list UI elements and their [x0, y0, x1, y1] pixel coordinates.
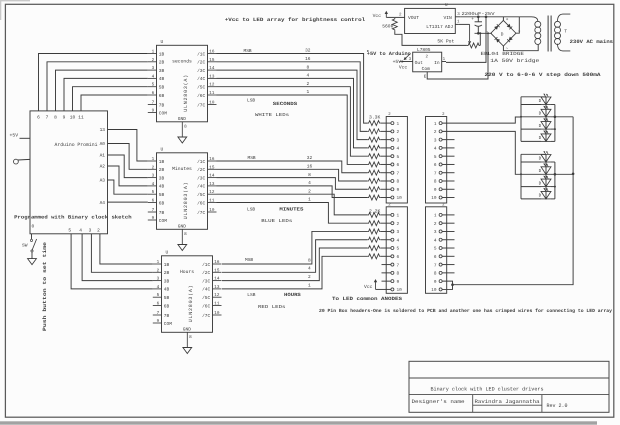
svg-text:ULN2803(A): ULN2803(A): [188, 285, 194, 322]
svg-text:4: 4: [79, 229, 82, 234]
left tap cluster 2: [521, 161, 541, 163]
svg-text:10: 10: [397, 288, 403, 293]
wire minutes bit 2: [217, 194, 368, 215]
svg-text:L7805: L7805: [417, 47, 431, 53]
svg-text:U: U: [445, 3, 448, 8]
wire R1 to header: [381, 122, 391, 124]
cap bottom lead: [477, 27, 479, 34]
svg-text:+: +: [506, 18, 509, 23]
pin 6 6B (seconds): [148, 94, 157, 96]
svg-text:BLUE LEDs: BLUE LEDs: [261, 219, 292, 224]
svg-text:Hours: Hours: [180, 269, 194, 275]
svg-text:5: 5: [434, 247, 437, 252]
junction: [477, 15, 480, 18]
pin 2 (J4): [439, 222, 442, 225]
pin 2 (J2): [391, 222, 394, 225]
svg-text:U: U: [161, 147, 164, 153]
svg-text:5B: 5B: [159, 193, 165, 198]
svg-text:4: 4: [157, 285, 160, 290]
pin 7 (J4): [439, 263, 442, 266]
cap top plate: [475, 21, 482, 23]
pin 3 VIN stub: [455, 16, 460, 18]
wire J3 pin2 to LED cluster 2: [442, 131, 521, 174]
junction: [479, 32, 481, 34]
pin 2 (J3): [439, 130, 442, 133]
svg-text:15: 15: [214, 268, 220, 273]
svg-text:5: 5: [68, 229, 71, 234]
pin 6 (J3): [439, 163, 442, 166]
wire R12 to header: [381, 222, 391, 224]
pin 13 /4C (seconds): [208, 77, 217, 79]
svg-text:-: -: [486, 30, 489, 35]
svg-text:/1C: /1C: [197, 159, 205, 165]
cap curved plate: [475, 25, 482, 26]
svg-text:2: 2: [97, 228, 100, 234]
svg-text:2: 2: [306, 81, 309, 87]
svg-text:1: 1: [434, 122, 437, 127]
svg-text:/3C: /3C: [197, 175, 205, 181]
svg-text:5: 5: [152, 190, 155, 195]
svg-text:14: 14: [214, 277, 220, 282]
pin 2 2B (Hours): [153, 271, 162, 273]
svg-text:2: 2: [434, 130, 437, 135]
svg-text:14: 14: [209, 66, 215, 71]
svg-text:/5C: /5C: [197, 85, 205, 91]
wire to hours input: [91, 234, 152, 272]
ground (Minutes): [178, 245, 187, 251]
svg-text:8: 8: [184, 124, 187, 129]
pin 9 (J3): [439, 188, 442, 191]
svg-text:5B: 5B: [159, 86, 165, 91]
pin 1 ADJ stub: [455, 23, 459, 25]
wire to minutes input: [108, 180, 148, 194]
svg-text:Rev 2.0: Rev 2.0: [547, 403, 568, 409]
left rail cluster 2: [520, 154, 522, 199]
wire D7 to seconds: [47, 62, 148, 111]
pin 7 7B (seconds): [148, 104, 157, 106]
wire ADJ to wiper: [459, 23, 470, 25]
wire R9 to header: [381, 188, 391, 190]
svg-text:16: 16: [214, 260, 220, 265]
svg-text:/2C: /2C: [197, 167, 205, 173]
svg-text:6: 6: [434, 163, 437, 168]
pin 13 /4C (Hours): [213, 288, 222, 290]
svg-text:MSB: MSB: [248, 155, 256, 161]
Vcc symbol (brightness): [385, 13, 387, 17]
svg-text:10: 10: [397, 196, 403, 201]
wire to minutes input: [108, 144, 148, 170]
svg-text:2: 2: [397, 222, 400, 227]
svg-text:10: 10: [431, 288, 437, 293]
pin 10 (J2): [391, 288, 394, 291]
LED D1 cluster 1: [541, 97, 551, 105]
wire seconds bit 16: [217, 62, 368, 132]
svg-text:D: D: [539, 157, 542, 162]
svg-text:U: U: [161, 39, 164, 45]
svg-text:11: 11: [209, 91, 215, 96]
svg-text:LSB: LSB: [247, 292, 255, 298]
stub J3 pin 5: [442, 155, 454, 157]
svg-text:3B: 3B: [159, 175, 165, 181]
stub J4 pin 5: [442, 247, 454, 249]
svg-text:2: 2: [152, 58, 155, 63]
pot wiper: [469, 24, 471, 41]
pin 14 /3C (seconds): [208, 69, 217, 71]
svg-text:7: 7: [434, 171, 437, 176]
svg-text:15: 15: [209, 58, 215, 63]
pin 9 COM (Minutes): [148, 219, 157, 221]
svg-text:8: 8: [434, 180, 437, 185]
svg-text:10: 10: [209, 101, 215, 106]
pin 5 5B (Minutes): [148, 193, 157, 195]
svg-text:Designer's name: Designer's name: [412, 399, 465, 405]
svg-text:T: T: [564, 28, 567, 34]
svg-text:GND: GND: [183, 327, 191, 333]
right tap cluster 1: [551, 128, 555, 130]
resistor R7 3.3K: [367, 170, 380, 175]
resistor R14 2.2K: [367, 237, 380, 242]
svg-text:7: 7: [152, 208, 155, 213]
svg-text:3: 3: [434, 138, 437, 143]
svg-text:Push button to set time: Push button to set time: [42, 242, 48, 331]
pin 14 /3C (Minutes): [208, 177, 217, 179]
pin 3 Out stub: [402, 61, 413, 63]
right rail cluster 1: [554, 105, 556, 142]
svg-text:/7C: /7C: [197, 210, 205, 216]
pin 6 6B (Hours): [153, 305, 162, 307]
svg-text:2200uF-25V: 2200uF-25V: [462, 11, 495, 17]
svg-text:D: D: [539, 124, 542, 129]
svg-text:8: 8: [184, 232, 187, 237]
wire R14 to header: [381, 239, 391, 241]
regulator U4 LT1317: [405, 8, 456, 33]
stub J3 pin 4: [442, 147, 454, 149]
resistor 560R: [392, 18, 397, 31]
op-amp U Minutes driver ULN2803A: [157, 153, 208, 230]
pin 16 /1C (Hours): [213, 263, 222, 265]
svg-text:A4: A4: [100, 201, 106, 206]
svg-text:7B: 7B: [159, 211, 165, 216]
pin 5 (J4): [439, 247, 442, 250]
stub J3 pin 3: [442, 139, 454, 141]
connector J1 10-pin box header: [386, 117, 407, 204]
svg-text:+5V to Arduino: +5V to Arduino: [367, 51, 411, 57]
svg-text:To LED common ANODES: To LED common ANODES: [332, 296, 402, 302]
pin 11 /6C (Hours): [213, 305, 222, 307]
svg-text:2B: 2B: [164, 270, 170, 276]
wire R7 to header: [381, 172, 391, 174]
svg-text:1: 1: [434, 214, 437, 219]
svg-text:WHITE LEDs: WHITE LEDs: [255, 113, 289, 118]
wire J3 pin1 to LED cluster 1: [442, 117, 521, 123]
svg-text:220 V to 6-0-6 V step down 500: 220 V to 6-0-6 V step down 500mA: [485, 72, 601, 78]
svg-text:/4C: /4C: [197, 184, 205, 190]
svg-text:/3C: /3C: [197, 68, 205, 74]
cathode tap cluster 1: [551, 116, 573, 118]
connector J4 10-pin box header: [426, 207, 447, 293]
svg-text:/1C: /1C: [197, 51, 205, 57]
svg-text:4B: 4B: [159, 185, 165, 190]
svg-text:4: 4: [308, 267, 311, 272]
svg-text:6: 6: [397, 255, 400, 260]
left tap cluster 2: [521, 173, 541, 175]
wire A4 to minutes 6B: [108, 201, 148, 203]
svg-text:D: D: [539, 194, 542, 199]
svg-text:MSB: MSB: [245, 257, 253, 263]
resistor R6 3.3K: [367, 162, 380, 167]
svg-text:4: 4: [152, 182, 155, 187]
pin 13 /4C (Minutes): [208, 185, 217, 187]
connector J2 10-pin box header: [386, 207, 407, 293]
pin 8 (J1): [391, 179, 394, 182]
wire seconds bit 2: [217, 87, 368, 156]
stub J2 pin 8: [382, 272, 391, 274]
svg-text:1: 1: [157, 260, 160, 265]
svg-text:1B: 1B: [159, 52, 165, 57]
svg-text:16: 16: [305, 56, 311, 62]
svg-text:ULN2803(A): ULN2803(A): [183, 75, 189, 112]
svg-text:/6C: /6C: [197, 200, 205, 206]
pin 2 2B (Minutes): [148, 168, 157, 170]
svg-text:+: +: [471, 17, 474, 22]
LED D8 cluster 2: [541, 191, 551, 199]
primary top lead: [558, 14, 571, 21]
svg-text:4: 4: [397, 238, 400, 243]
wire D8 to seconds: [56, 70, 148, 111]
wire to hours input: [82, 234, 153, 281]
svg-text:7: 7: [434, 263, 437, 268]
svg-text:9: 9: [434, 188, 437, 193]
svg-text:/5C: /5C: [197, 192, 205, 198]
svg-text:13: 13: [100, 127, 106, 133]
wire hours bit 1: [222, 256, 367, 289]
svg-text:8: 8: [397, 180, 400, 185]
svg-text:4: 4: [152, 74, 155, 79]
svg-text:/2C: /2C: [202, 270, 210, 276]
wire R6 to header: [381, 163, 391, 165]
svg-text:/1C: /1C: [202, 262, 210, 268]
pin 7 (J2): [391, 263, 394, 266]
svg-text:GND: GND: [178, 224, 186, 230]
svg-text:3: 3: [434, 230, 437, 235]
wire pot to rail: [479, 33, 481, 45]
pin 5 (J3): [439, 155, 442, 158]
wire switch to ground: [31, 252, 33, 259]
pin 9 (J1): [391, 188, 394, 191]
wire bridge+ to VIN rail: [502, 17, 504, 21]
pin 16 /1C (seconds): [208, 53, 217, 55]
pin 1 1B (Hours): [153, 263, 162, 265]
pin 6 (J1): [391, 163, 394, 166]
svg-text:1: 1: [152, 157, 155, 162]
pin 10 (J1): [391, 196, 394, 199]
pin 7 (J3): [439, 171, 442, 174]
pin 1 1B (Minutes): [148, 160, 157, 162]
svg-text:7: 7: [152, 101, 155, 106]
cap top lead: [477, 17, 479, 22]
pin 5 (J1): [391, 155, 394, 158]
wire bridge+ to 7805 In: [446, 17, 486, 63]
pin 7 7B (Hours): [153, 314, 162, 316]
svg-text:2: 2: [157, 268, 160, 273]
stub J2 pin 7: [382, 264, 391, 266]
svg-text:Vcc: Vcc: [399, 65, 408, 71]
svg-text:12: 12: [214, 293, 220, 298]
svg-text:HOURS: HOURS: [284, 292, 301, 298]
wire to hours input: [100, 234, 153, 264]
svg-text:32: 32: [305, 48, 311, 54]
wire +5V to Arduino pin: [20, 137, 31, 139]
wire R8 to header: [381, 180, 391, 182]
transformer core: [547, 16, 549, 52]
pin 16 /1C (Minutes): [208, 160, 217, 162]
svg-text:4: 4: [397, 147, 400, 152]
pin 7 (J1): [391, 171, 394, 174]
svg-text:2: 2: [397, 130, 400, 135]
pin 12 /5C (seconds): [208, 86, 217, 88]
svg-text:ADJ: ADJ: [445, 24, 454, 30]
svg-text:LSB: LSB: [247, 97, 255, 103]
svg-text:/7C: /7C: [197, 102, 205, 108]
svg-text:A3: A3: [100, 178, 106, 184]
LED D5 cluster 2: [541, 155, 551, 163]
svg-text:10: 10: [209, 208, 215, 213]
junction: [554, 186, 556, 188]
wire J4 pin9-pin10 join: [442, 281, 452, 289]
svg-text:2: 2: [308, 188, 311, 194]
svg-text:Minutes: Minutes: [172, 166, 192, 172]
op-amp U Hours driver ULN2803A: [162, 256, 213, 332]
svg-text:6: 6: [157, 302, 160, 307]
svg-text:2: 2: [152, 165, 155, 170]
wire to minutes input: [108, 155, 148, 178]
wire to hours input: [71, 234, 153, 289]
wire D11 to seconds: [81, 95, 148, 111]
LED D7 cluster 2: [541, 179, 551, 187]
pin 8 (J4): [439, 271, 442, 274]
svg-text:7: 7: [157, 311, 160, 316]
primary bottom lead: [558, 44, 571, 51]
resistor R13 2.2K: [367, 229, 380, 234]
svg-text:5: 5: [434, 155, 437, 160]
svg-text:15: 15: [209, 165, 215, 170]
svg-text:8: 8: [308, 172, 311, 178]
wire D10 to seconds: [73, 87, 148, 111]
wire R11 to header: [381, 214, 391, 216]
pin 1 (J4): [439, 213, 442, 216]
svg-text:seconds: seconds: [172, 59, 192, 65]
svg-text:6: 6: [37, 115, 40, 121]
wire minutes bit 1: [217, 203, 368, 224]
svg-text:8: 8: [308, 257, 311, 263]
pin 6 (J2): [391, 255, 394, 258]
svg-text:13: 13: [214, 285, 220, 290]
stub J4 pin 1: [442, 214, 454, 216]
svg-text:6: 6: [434, 255, 437, 260]
svg-text:D: D: [539, 136, 542, 141]
svg-text:32: 32: [307, 155, 313, 161]
right tap cluster 2: [551, 161, 555, 163]
pin 2 (J1): [391, 130, 394, 133]
svg-text:1B: 1B: [164, 263, 170, 268]
resistor R8 3.3K: [367, 178, 380, 183]
bridge rectifier EBL04: [491, 20, 516, 46]
pin 3 3B (Minutes): [148, 177, 157, 179]
svg-text:EBL04 BRIDGE: EBL04 BRIDGE: [481, 51, 525, 57]
svg-text:1: 1: [306, 90, 309, 95]
ground (seconds): [178, 137, 187, 143]
svg-text:+Vcc to LED array for brightne: +Vcc to LED array for brightness control: [225, 17, 365, 23]
stub J4 pin 7: [442, 264, 454, 266]
resistor R10 3.3K: [367, 195, 380, 200]
ground (Hours): [183, 348, 192, 354]
LED chain (cluster 1): [545, 97, 547, 142]
pin 5 5B (seconds): [148, 86, 157, 88]
cathode tap cluster 2: [551, 173, 573, 175]
svg-text:Com: Com: [422, 66, 431, 72]
right rail cluster 2: [554, 162, 556, 199]
pin 5 5B (Hours): [153, 296, 162, 298]
svg-text:VIN: VIN: [444, 15, 453, 21]
svg-text:9: 9: [434, 280, 437, 285]
pin 11 /6C (Minutes): [208, 202, 217, 204]
svg-text:5K Pot: 5K Pot: [437, 38, 454, 44]
svg-text:4B: 4B: [164, 288, 170, 293]
svg-text:Out: Out: [415, 60, 424, 66]
bridge diode bottom-left: [496, 39, 500, 43]
transformer primary winding: [555, 21, 561, 27]
svg-text:6: 6: [152, 91, 155, 96]
wire hours bit 8: [222, 231, 367, 264]
junction: [520, 173, 522, 175]
svg-text:12: 12: [209, 83, 215, 88]
switch blade: [32, 239, 37, 251]
LED D3 cluster 1: [541, 122, 551, 130]
svg-text:/5C: /5C: [202, 295, 210, 301]
svg-text:1: 1: [397, 122, 400, 127]
pin 6 6B (Minutes): [148, 202, 157, 204]
svg-text:6: 6: [152, 199, 155, 204]
junction: [554, 173, 557, 176]
svg-text:7B: 7B: [159, 103, 165, 108]
left tap top cluster 2: [521, 153, 546, 155]
svg-text:230V AC mains: 230V AC mains: [570, 39, 613, 45]
svg-text:In: In: [434, 60, 440, 66]
pin 2 2B (seconds): [148, 61, 157, 63]
wire D6 to seconds: [39, 54, 148, 111]
stub J2 pin 9: [382, 280, 391, 282]
svg-text:VOUT: VOUT: [408, 15, 419, 21]
svg-text:D: D: [539, 112, 542, 117]
svg-text:6B: 6B: [159, 200, 165, 206]
pin 3 (J2): [391, 230, 394, 233]
resistor R2 3.3K: [367, 129, 380, 134]
svg-text:6B: 6B: [159, 93, 165, 99]
pin 9 COM (Hours): [153, 322, 162, 324]
wire to minutes input: [108, 130, 148, 162]
svg-text:4B: 4B: [159, 77, 165, 82]
svg-text:+5V: +5V: [10, 133, 19, 139]
svg-text:8: 8: [54, 115, 57, 121]
resistor R16 2.2K: [367, 254, 380, 259]
LED chain (cluster 2): [545, 154, 547, 199]
svg-text:/2C: /2C: [197, 60, 205, 66]
svg-text:1A 50V bridge: 1A 50V bridge: [490, 58, 539, 64]
svg-text:Programmed with Binary clock s: Programmed with Binary clock sketch: [14, 214, 131, 220]
svg-text:13: 13: [209, 74, 215, 79]
svg-text:10: 10: [431, 196, 437, 201]
svg-text:1B: 1B: [159, 160, 165, 165]
